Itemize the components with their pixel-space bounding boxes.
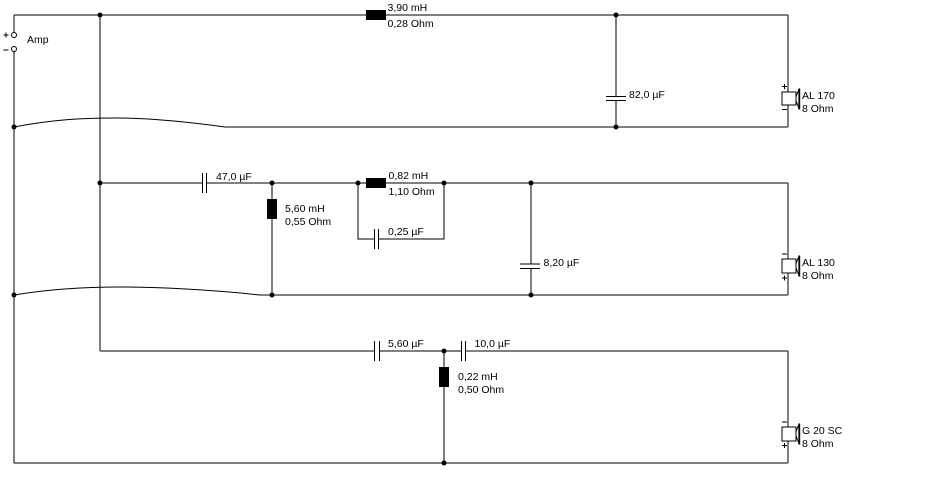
junction dot parallel group right bbox=[442, 181, 447, 186]
junction dot 8,20uF top bbox=[529, 181, 534, 186]
wire main vertical feeder x=100 bbox=[99, 15, 101, 351]
junction dot tweeter filter bbox=[442, 349, 447, 354]
capacitor C4 8,20 uF plates bbox=[520, 264, 540, 269]
wire Amp+ lead bbox=[13, 15, 15, 33]
wire mid rail 47uF to parallel group bbox=[207, 182, 358, 184]
polarity SP1 - bbox=[782, 109, 787, 111]
wire woofer return rail bbox=[225, 126, 788, 128]
wire mid return hump bbox=[14, 287, 260, 295]
svg-text:5,60 mH: 5,60 mH bbox=[285, 203, 325, 215]
capacitor C2 47,0 uF plates bbox=[203, 173, 207, 193]
svg-text:47,0 µF: 47,0 µF bbox=[216, 171, 252, 183]
inductor L2 5,60 mH bbox=[267, 199, 277, 219]
wire after 10,0uF to tweeter bbox=[466, 350, 788, 352]
wire woofer return hump bbox=[14, 118, 225, 127]
junction dot Amp- mid return bbox=[12, 293, 17, 298]
svg-text:10,0 µF: 10,0 µF bbox=[475, 338, 511, 350]
wire parallel group left leg bbox=[358, 183, 374, 239]
svg-text:0,25 µF: 0,25 µF bbox=[388, 226, 424, 238]
wire tweeter top riser bbox=[787, 351, 789, 427]
wire top rail from Amp+ to woofer bbox=[14, 14, 788, 16]
terminal Amp - bbox=[12, 47, 17, 52]
inductor L4 0,22 mH bbox=[439, 367, 449, 387]
speaker SP2 AL 130 bbox=[782, 256, 799, 277]
wire bottom rail to tweeter bbox=[14, 462, 788, 464]
svg-text:3,90 mH: 3,90 mH bbox=[388, 2, 428, 14]
wire 82uF top leg bbox=[615, 15, 617, 97]
junction dot Amp- woofer return bbox=[12, 125, 17, 130]
junction dot parallel group left bbox=[356, 181, 361, 186]
svg-text:82,0 µF: 82,0 µF bbox=[629, 89, 665, 101]
wire 0,22mH shunt branch bbox=[443, 351, 445, 463]
wire woofer top riser bbox=[787, 15, 789, 92]
junction dot 82uF top bbox=[614, 13, 619, 18]
svg-text:8,20 µF: 8,20 µF bbox=[544, 257, 580, 269]
speaker SP3 G 20 SC bbox=[782, 424, 799, 445]
wire mid return rail bbox=[260, 294, 788, 296]
wire 5,60mH shunt branch bbox=[271, 183, 273, 295]
wire Amp- lead down left edge bbox=[13, 52, 15, 464]
svg-text:AL 170: AL 170 bbox=[802, 90, 835, 102]
capacitor C5 5,60 uF plates bbox=[375, 341, 380, 361]
svg-text:8 Ohm: 8 Ohm bbox=[802, 103, 834, 115]
polarity SP2 - bbox=[782, 253, 787, 255]
wire between 5,60uF and 10,0uF bbox=[380, 350, 462, 352]
inductor L1 3,90 mH bbox=[366, 10, 386, 20]
svg-text:AL 130: AL 130 bbox=[802, 257, 835, 269]
svg-text:5,60 µF: 5,60 µF bbox=[388, 338, 424, 350]
junction dot 82uF bottom bbox=[614, 125, 619, 130]
wire 8,20uF top leg bbox=[530, 183, 532, 264]
label Amp - sign bbox=[4, 49, 9, 51]
wire mid bottom riser bbox=[787, 273, 789, 295]
polarity SP3 - bbox=[782, 421, 787, 423]
svg-text:0,82 mH: 0,82 mH bbox=[389, 170, 429, 182]
svg-text:1,10 Ohm: 1,10 Ohm bbox=[389, 186, 435, 198]
wire parallel group right leg bbox=[379, 183, 444, 239]
wire mid rail left of 47uF bbox=[100, 182, 202, 184]
capacitor C3 0,25 uF plates bbox=[375, 229, 379, 249]
svg-text:0,50 Ohm: 0,50 Ohm bbox=[458, 384, 504, 396]
wire through 0,82mH bbox=[358, 182, 444, 184]
junction dot top feeder bbox=[98, 13, 103, 18]
wire tweeter return riser bbox=[787, 441, 789, 463]
polarity SP3 + bbox=[782, 443, 787, 448]
junction dot mid feeder bbox=[98, 181, 103, 186]
junction dot 8,20uF bottom bbox=[529, 293, 534, 298]
label Amp + sign bbox=[4, 33, 9, 38]
wire tweeter feed rail bbox=[100, 350, 374, 352]
svg-text:0,22 mH: 0,22 mH bbox=[458, 371, 498, 383]
wire 8,20uF bottom leg bbox=[530, 269, 532, 296]
junction dot 0,22mH bottom bbox=[442, 461, 447, 466]
svg-text:8 Ohm: 8 Ohm bbox=[802, 270, 834, 282]
polarity SP2 + bbox=[782, 276, 787, 281]
junction dot 5,60mH top bbox=[270, 181, 275, 186]
wire mid rail to AL130 bbox=[444, 182, 788, 184]
svg-text:8 Ohm: 8 Ohm bbox=[802, 438, 834, 450]
svg-text:Amp: Amp bbox=[27, 34, 49, 46]
capacitor C6 10,0 uF plates bbox=[462, 341, 466, 361]
junction dot 5,60mH bottom bbox=[270, 293, 275, 298]
capacitor C1 82,0 uF plates bbox=[606, 97, 626, 101]
svg-text:0,55 Ohm: 0,55 Ohm bbox=[285, 216, 331, 228]
inductor L3 0,82 mH bbox=[366, 178, 386, 188]
terminal Amp + bbox=[12, 33, 17, 38]
wire woofer bottom riser bbox=[787, 105, 789, 127]
speaker SP1 AL 170 bbox=[782, 89, 799, 110]
svg-text:G 20 SC: G 20 SC bbox=[802, 425, 843, 437]
svg-text:0,28 Ohm: 0,28 Ohm bbox=[388, 18, 434, 30]
wire 82uF bottom leg bbox=[615, 101, 617, 128]
wire mid top riser bbox=[787, 183, 789, 259]
polarity SP1 + bbox=[782, 84, 787, 89]
